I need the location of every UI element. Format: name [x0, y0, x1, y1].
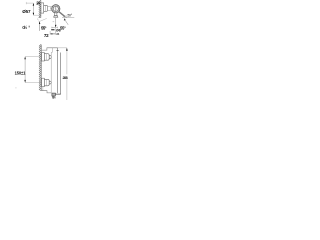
leader arrow to angle: [63, 17, 68, 25]
dim line 72 arrow: [50, 31, 55, 35]
body left edge with step: [51, 48, 52, 93]
union nut upper view: [44, 5, 48, 11]
wall hatch upper view: [39, 0, 41, 17]
bottom wall step profile: [41, 87, 51, 93]
vertical extension mid: [55, 28, 57, 35]
stem extension with down arrow: [55, 18, 56, 27]
dimension D57: [22, 2, 41, 15]
wall hatch lower view: [39, 45, 41, 91]
body top profile: [42, 48, 58, 50]
svg-text:G½: G½: [52, 95, 56, 99]
faint dot bottom left: [15, 87, 16, 88]
svg-text:24: 24: [36, 0, 40, 5]
lever upper view: [59, 12, 67, 18]
top union neck: [49, 56, 51, 59]
body right edge: [57, 48, 59, 93]
svg-text:Ø57: Ø57: [22, 9, 31, 14]
svg-text:72: 72: [44, 33, 49, 38]
bottom union neck: [49, 81, 51, 84]
svg-text:55°: 55°: [60, 26, 66, 31]
lever strip side view: [55, 51, 61, 95]
top union nut: [44, 54, 49, 61]
bottom union nut: [44, 79, 49, 86]
dimension 208: [58, 48, 69, 100]
outlet G1/2: [52, 93, 56, 99]
bottom union lower view: escutcheon: [42, 78, 45, 86]
extension line at 27.5: [52, 27, 58, 29]
left extension line with up arrow: [39, 21, 40, 31]
svg-text:55°: 55°: [41, 26, 47, 31]
pipe upper view: [48, 6, 53, 10]
knob circle upper view: [52, 5, 60, 13]
top union lower view: escutcheon: [42, 53, 45, 61]
svg-text:208: 208: [63, 75, 69, 80]
extension line 0deg: [62, 17, 74, 19]
svg-text:150±1: 150±1: [15, 70, 27, 75]
svg-text:24: 24: [56, 32, 59, 36]
svg-text:G½: G½: [22, 25, 27, 30]
leader below upper wall: [37, 19, 39, 21]
dark bar dim: [51, 29, 54, 30]
dimension 150±1: [15, 57, 42, 83]
stem below knob: [54, 13, 58, 17]
escutcheon upper view: [41, 3, 44, 13]
svg-text:50°: 50°: [67, 14, 72, 18]
